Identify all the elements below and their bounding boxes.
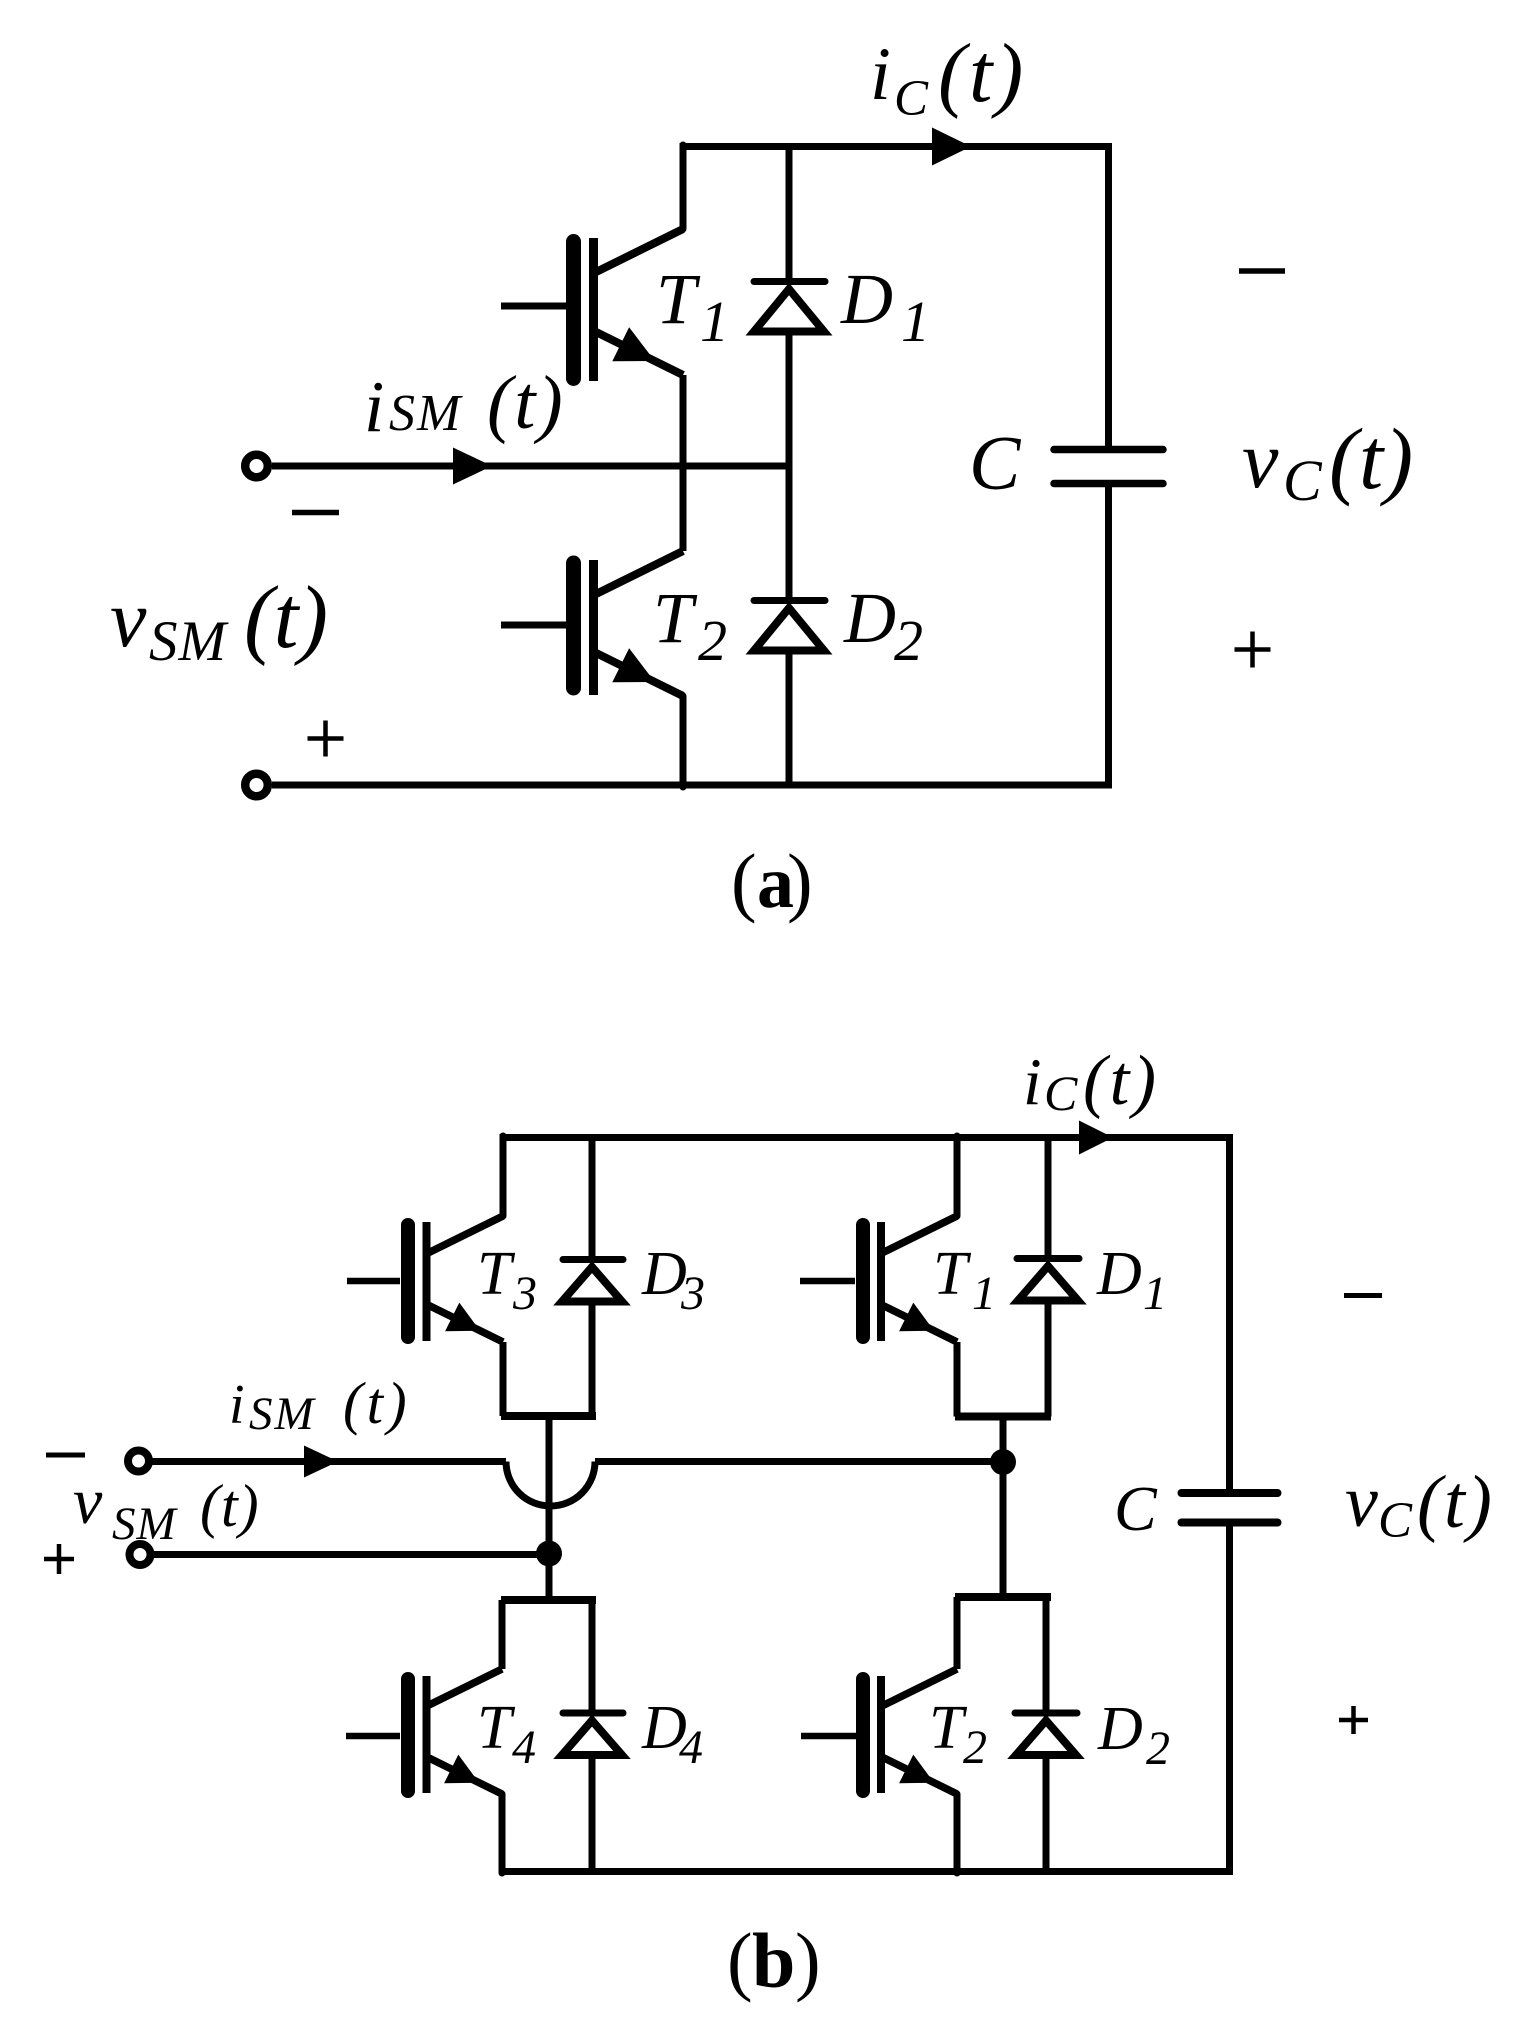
transistor T4 (IGBT) bbox=[346, 1600, 502, 1873]
diode D2 (b) bbox=[1015, 1597, 1077, 1872]
T2 collector diagonal bbox=[592, 551, 683, 596]
T3 emitter lead bbox=[500, 1342, 507, 1416]
D1b triangle bbox=[1018, 1266, 1078, 1301]
Cb bottom plate bbox=[1182, 1519, 1278, 1527]
D1 top lead bbox=[786, 143, 793, 282]
T2 emitter diagonal bbox=[592, 651, 683, 696]
T3 gate bar bbox=[401, 1225, 415, 1337]
svg-text:iC(t): iC(t) bbox=[870, 27, 1026, 127]
minus sign at upper terminal (a) bbox=[292, 510, 339, 516]
D3 cathode bar bbox=[563, 1256, 623, 1263]
T4 emitter diagonal bbox=[427, 1757, 502, 1794]
svg-text:(b): (b) bbox=[727, 1917, 821, 2004]
transistor T1 (IGBT, b) bbox=[800, 1136, 957, 1417]
C top lead bbox=[1105, 147, 1112, 447]
node junction dot right midpoint (b) bbox=[990, 1449, 1016, 1475]
svg-text:D1: D1 bbox=[840, 259, 930, 354]
C bottom lead bbox=[1105, 487, 1112, 785]
Cb top plate bbox=[1182, 1489, 1278, 1497]
T4 emitter arrow bbox=[444, 1755, 479, 1784]
T2b gate lead bbox=[801, 1733, 856, 1740]
wire: right leg midpoint stub (b) bbox=[1000, 1417, 1007, 1598]
svg-text:D2: D2 bbox=[1097, 1695, 1170, 1775]
wire: i_SM input right segment to right midpoint (b) bbox=[595, 1458, 1003, 1465]
T2b emitter diagonal bbox=[882, 1757, 957, 1794]
capacitor C (a) bbox=[1054, 147, 1163, 786]
T2 body bar bbox=[589, 560, 598, 695]
diode D1 (a) bbox=[754, 143, 825, 466]
svg-text:(a): (a) bbox=[731, 838, 813, 924]
T4 gate bar bbox=[401, 1679, 415, 1791]
C bottom plate bbox=[1054, 480, 1163, 488]
D4 top lead bbox=[589, 1600, 596, 1713]
svg-text:D4: D4 bbox=[641, 1694, 703, 1774]
T2b gate bar bbox=[856, 1679, 870, 1791]
svg-text:vC(t): vC(t) bbox=[1242, 410, 1414, 513]
T3 collector lead bbox=[500, 1136, 507, 1216]
svg-text:iSM(t): iSM(t) bbox=[229, 1370, 411, 1440]
T2 emitter arrow bbox=[612, 648, 655, 682]
wire: T4/D4 junction bar (b) bbox=[501, 1596, 596, 1604]
svg-text:C: C bbox=[969, 420, 1022, 506]
node: input terminal upper (a) bbox=[245, 455, 268, 478]
D3 bottom lead bbox=[589, 1302, 596, 1416]
T2b emitter lead bbox=[954, 1794, 961, 1873]
T1b collector diagonal bbox=[882, 1216, 957, 1253]
T1 gate bar bbox=[566, 242, 581, 379]
C top plate bbox=[1054, 446, 1163, 454]
wire: v_SM plus lead to left midpoint (b) bbox=[154, 1551, 549, 1558]
D2b bottom lead bbox=[1043, 1756, 1050, 1872]
D2 cathode bar bbox=[754, 597, 825, 604]
T1 emitter diagonal bbox=[592, 330, 683, 375]
svg-text:T1: T1 bbox=[656, 259, 729, 354]
D2 triangle bbox=[754, 608, 824, 651]
svg-text:D3: D3 bbox=[641, 1240, 705, 1320]
T2b collector diagonal bbox=[882, 1669, 957, 1706]
node: input terminal upper (b) bbox=[128, 1451, 149, 1472]
svg-text:T4: T4 bbox=[477, 1694, 536, 1774]
wire: top rail (a) bbox=[680, 143, 1113, 150]
svg-text:iC(t): iC(t) bbox=[1023, 1042, 1159, 1121]
T1 emitter arrow bbox=[612, 327, 655, 361]
T3 emitter arrow bbox=[445, 1303, 480, 1332]
minus sign at upper terminal (b) bbox=[46, 1453, 85, 1458]
svg-text:T2: T2 bbox=[929, 1694, 987, 1774]
transistor T1 (IGBT) bbox=[501, 229, 683, 466]
wire hop over left stub bbox=[506, 1462, 595, 1507]
D4 bottom lead bbox=[589, 1756, 596, 1872]
svg-text:D2: D2 bbox=[843, 578, 923, 673]
D1 cathode bar bbox=[754, 278, 825, 285]
transistor T3 (IGBT) bbox=[347, 1136, 503, 1416]
T4 emitter lead bbox=[499, 1794, 506, 1873]
T1 collector diagonal bbox=[592, 229, 683, 274]
svg-text:T2: T2 bbox=[653, 578, 727, 673]
transistor T2 (IGBT, b) bbox=[801, 1597, 957, 1873]
minus sign at capacitor top (b) bbox=[1344, 1293, 1382, 1298]
svg-text:iSM(t): iSM(t) bbox=[364, 361, 565, 447]
diode D2 (a) bbox=[754, 466, 825, 785]
svg-text:vSM(t): vSM(t) bbox=[73, 1465, 260, 1550]
svg-text:vSM(t): vSM(t) bbox=[110, 569, 328, 673]
D1b bottom lead bbox=[1045, 1301, 1052, 1417]
D4 triangle bbox=[562, 1721, 622, 1756]
wire: T1/D1 junction bar (b) bbox=[955, 1413, 1051, 1421]
node junction dot left midpoint (b) bbox=[536, 1541, 562, 1567]
T2b collector lead bbox=[954, 1597, 961, 1669]
T1 gate lead bbox=[501, 303, 566, 310]
T3 collector diagonal bbox=[428, 1216, 503, 1253]
T1b gate bar bbox=[856, 1225, 870, 1337]
T1b collector lead bbox=[954, 1136, 961, 1216]
D3 top lead bbox=[589, 1138, 596, 1260]
T2 gate lead bbox=[501, 622, 566, 629]
svg-text:C: C bbox=[1114, 1473, 1158, 1544]
arrow i_SM (b) bbox=[304, 1446, 338, 1478]
T3 emitter diagonal bbox=[428, 1305, 503, 1342]
wire: i_SM input (a) bbox=[272, 463, 789, 470]
svg-text:D1: D1 bbox=[1096, 1240, 1167, 1320]
T3 gate lead bbox=[347, 1278, 400, 1285]
T1b gate lead bbox=[800, 1278, 855, 1285]
diode D4 (b) bbox=[562, 1600, 623, 1872]
T1 emitter lead bbox=[680, 375, 687, 466]
T2 collector lead bbox=[680, 466, 687, 551]
arrow i_SM (a) bbox=[453, 448, 492, 485]
plus sign at capacitor bottom (a) bbox=[1235, 632, 1271, 668]
wire: T3/D3 junction bar bbox=[501, 1412, 596, 1420]
svg-text:vC(t): vC(t) bbox=[1345, 1461, 1494, 1549]
diode D1 (b) bbox=[1017, 1138, 1079, 1417]
wire: bottom rail (b) bbox=[502, 1868, 1233, 1875]
T1b emitter diagonal bbox=[882, 1305, 957, 1342]
T2 gate bar bbox=[566, 563, 581, 688]
node: input terminal lower (b) bbox=[130, 1544, 151, 1565]
D1 triangle bbox=[754, 289, 824, 332]
T1 body bar bbox=[589, 238, 598, 381]
wire: T1 collector riser to top rail bbox=[680, 145, 687, 229]
D2b top lead bbox=[1043, 1597, 1050, 1713]
D2 top lead bbox=[786, 466, 793, 601]
T4 collector lead bbox=[499, 1600, 506, 1669]
Cb bottom lead bbox=[1226, 1527, 1233, 1872]
D2b cathode bar bbox=[1015, 1710, 1077, 1717]
T1b emitter arrow bbox=[899, 1303, 934, 1332]
svg-text:T1: T1 bbox=[933, 1240, 996, 1320]
minus sign at capacitor top (a) bbox=[1239, 268, 1285, 274]
node: input terminal lower (a) bbox=[245, 774, 268, 797]
T2b emitter arrow bbox=[899, 1755, 934, 1784]
wire: top rail (b) bbox=[500, 1134, 1234, 1141]
T4 gate lead bbox=[346, 1733, 400, 1740]
transistor T2 (IGBT) bbox=[501, 466, 683, 787]
diode D3 (b) bbox=[562, 1138, 623, 1417]
D4 cathode bar bbox=[563, 1710, 623, 1717]
T1b emitter lead bbox=[954, 1342, 961, 1417]
wire: left leg midpoint stub bbox=[546, 1416, 553, 1600]
svg-text:T3: T3 bbox=[477, 1240, 537, 1320]
T3 body bar bbox=[423, 1222, 431, 1341]
D1 bottom lead bbox=[786, 332, 793, 466]
arrow i_C on top rail (b) bbox=[1079, 1121, 1113, 1155]
T2b body bar bbox=[877, 1676, 885, 1793]
D3 triangle bbox=[562, 1267, 622, 1302]
T2 emitter lead bbox=[680, 696, 687, 787]
T1b body bar bbox=[877, 1222, 885, 1341]
arrow i_C on top rail (a) bbox=[932, 128, 971, 166]
wire: bottom rail (a) bbox=[272, 782, 1112, 789]
wire: T2/D2 junction bar (b) bbox=[955, 1593, 1051, 1601]
T4 collector diagonal bbox=[427, 1669, 502, 1706]
wire: i_SM input left segment (b) bbox=[152, 1458, 506, 1465]
plus sign at capacitor bottom (b) bbox=[1339, 1706, 1368, 1734]
plus sign at lower terminal (b) bbox=[44, 1544, 74, 1574]
T4 body bar bbox=[423, 1676, 431, 1793]
capacitor C (b) bbox=[1182, 1138, 1278, 1872]
D2b triangle bbox=[1016, 1721, 1076, 1756]
D1b top lead bbox=[1045, 1138, 1052, 1259]
D2 bottom lead bbox=[786, 651, 793, 785]
Cb top lead bbox=[1226, 1138, 1233, 1490]
plus sign at lower terminal (a) bbox=[308, 721, 344, 757]
D1b cathode bar bbox=[1017, 1255, 1079, 1262]
